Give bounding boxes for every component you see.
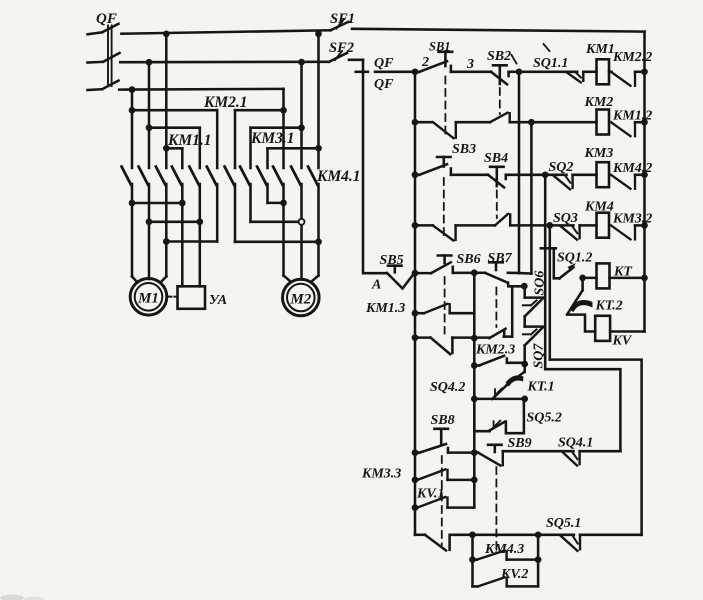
svg-text:SB9: SB9 (508, 436, 532, 451)
svg-text:KM1.1: KM1.1 (167, 132, 212, 149)
svg-text:M2: M2 (289, 291, 311, 307)
svg-text:SB7: SB7 (488, 251, 513, 266)
svg-text:KM4: KM4 (584, 200, 614, 215)
svg-text:SB6: SB6 (457, 252, 481, 267)
svg-text:SQ6: SQ6 (533, 271, 548, 296)
svg-text:SQ1.2: SQ1.2 (557, 251, 592, 266)
svg-text:SQ3: SQ3 (553, 211, 578, 226)
svg-text:SQ4.1: SQ4.1 (558, 436, 593, 451)
svg-text:KT.1: KT.1 (527, 380, 555, 395)
svg-text:KM1.3: KM1.3 (365, 301, 405, 316)
svg-text:QF: QF (374, 77, 394, 92)
svg-text:SQ5.1: SQ5.1 (546, 516, 581, 531)
svg-text:SB8: SB8 (431, 413, 455, 428)
svg-text:KM3: KM3 (584, 146, 614, 161)
svg-text:SQ7: SQ7 (532, 343, 547, 369)
svg-text:KM1: KM1 (585, 42, 615, 57)
svg-text:SF2: SF2 (329, 40, 354, 56)
svg-text:KM2: KM2 (584, 95, 614, 110)
svg-text:QF: QF (374, 56, 394, 71)
svg-text:SB2: SB2 (487, 49, 511, 64)
svg-text:KM2.3: KM2.3 (475, 343, 515, 358)
svg-text:SQ5.2: SQ5.2 (527, 411, 562, 426)
svg-text:УА: УА (209, 293, 227, 308)
svg-text:SB1: SB1 (429, 40, 451, 54)
svg-text:M1: M1 (137, 291, 159, 307)
svg-text:SQ2: SQ2 (549, 160, 574, 175)
svg-text:SQ4.2: SQ4.2 (430, 380, 465, 395)
svg-text:SQ1.1: SQ1.1 (533, 56, 568, 71)
svg-text:KM2.2: KM2.2 (612, 50, 652, 65)
svg-text:KV: KV (612, 334, 633, 349)
svg-text:KV.2: KV.2 (500, 567, 528, 582)
svg-text:KT.2: KT.2 (595, 299, 623, 314)
svg-text:SB3: SB3 (452, 142, 476, 157)
svg-text:KM3.1: KM3.1 (250, 130, 295, 147)
svg-text:KM2.1: KM2.1 (203, 94, 248, 111)
svg-text:A: A (371, 278, 381, 293)
svg-text:3: 3 (466, 57, 474, 72)
svg-text:KM3.3: KM3.3 (361, 467, 401, 482)
svg-text:SB4: SB4 (484, 151, 508, 166)
svg-text:KM4.1: KM4.1 (316, 168, 361, 185)
svg-text:QF: QF (96, 11, 117, 27)
